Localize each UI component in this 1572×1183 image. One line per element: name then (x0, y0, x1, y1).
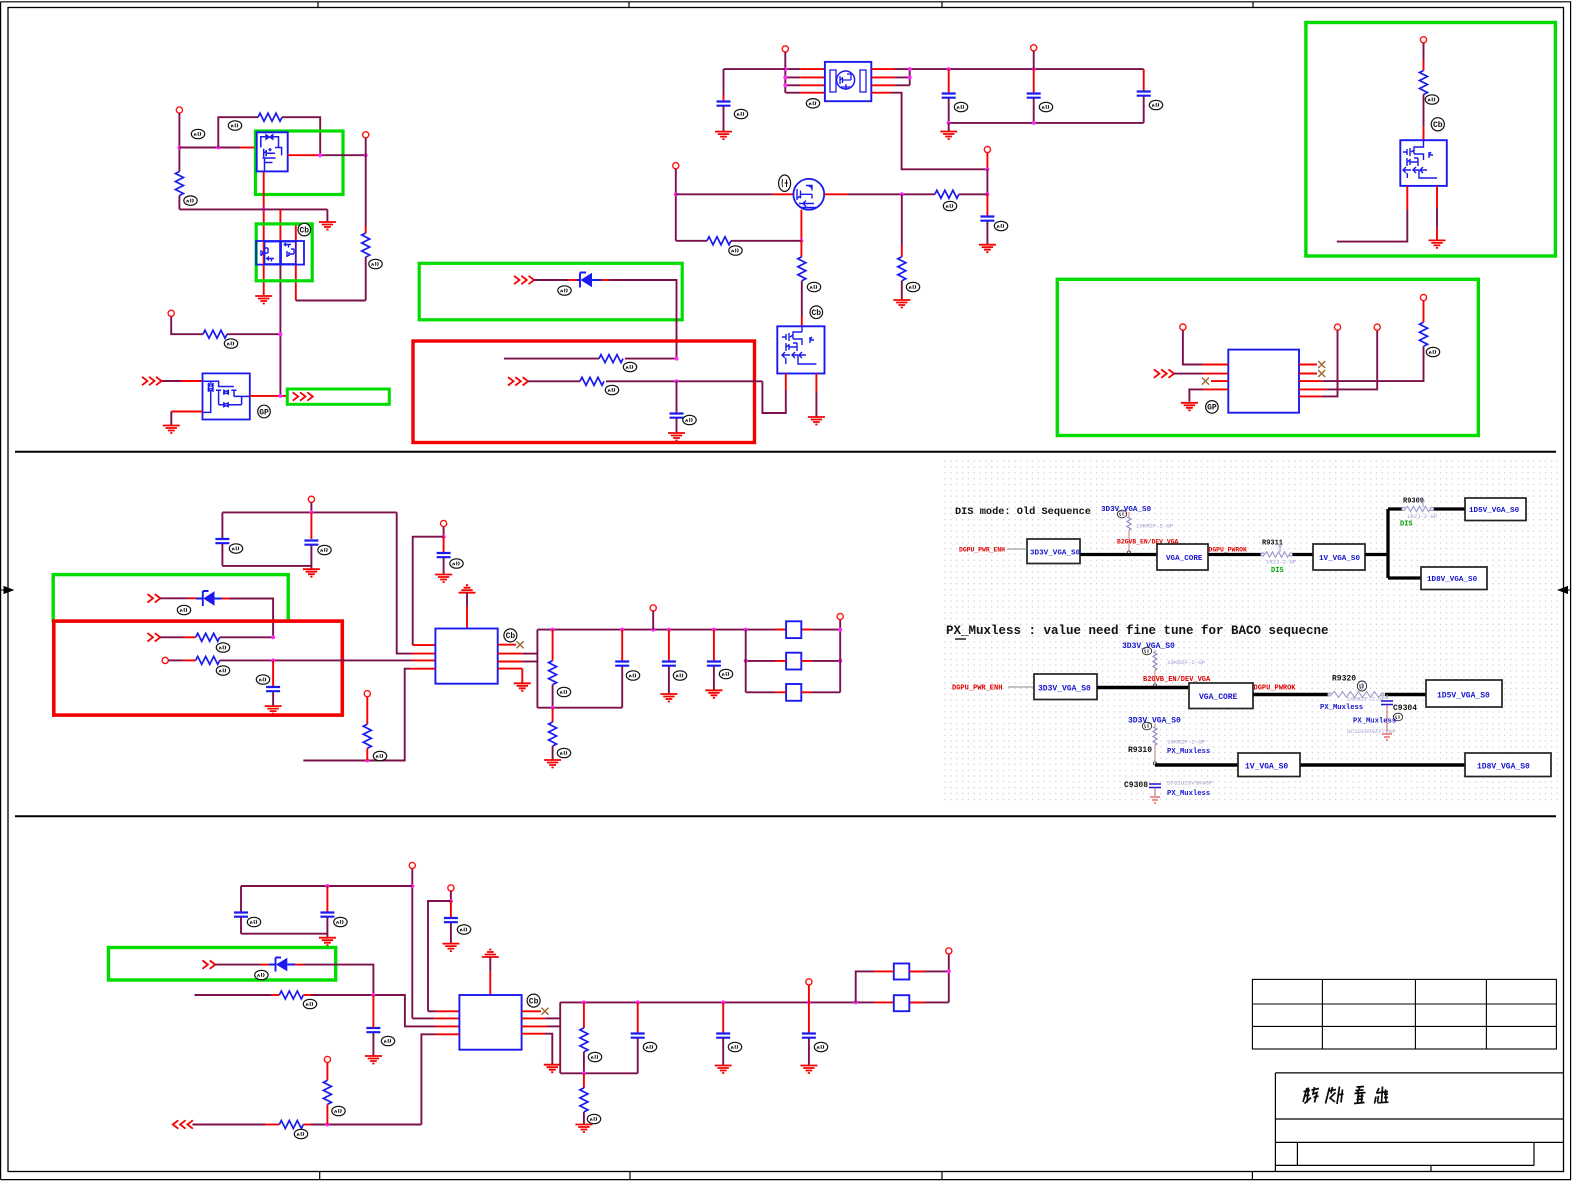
label R11 (1425, 95, 1438, 104)
resistor R4 (203, 330, 227, 338)
svg-text:Cb: Cb (1433, 121, 1443, 130)
resistor R20 (326, 1063, 328, 1081)
wire rail y209 (179, 208, 327, 210)
node bus c4 (1032, 67, 1036, 71)
port chevrons U2 (1154, 369, 1160, 377)
wire RB1 row2 (528, 380, 762, 382)
capacitor C14 (240, 886, 242, 912)
node box 3D3V_VGA_S0 (1027, 539, 1080, 564)
ground GND24 (715, 1066, 732, 1074)
label D3 (255, 970, 268, 979)
ferrite FB1 (786, 621, 801, 638)
section separator 2 (15, 815, 1556, 817)
node fb2 l (744, 659, 748, 663)
label D2 (177, 605, 190, 614)
svg-text:R9310: R9310 (1128, 746, 1152, 755)
label C14 (247, 917, 260, 926)
node b2 c2 (667, 628, 671, 632)
label R12 (1426, 347, 1439, 356)
connector J15 (162, 657, 168, 663)
svg-text:R9320: R9320 (1332, 675, 1356, 684)
resistor R pullup1 (1127, 512, 1131, 554)
label C15 (334, 917, 347, 926)
svg-text:PX_Muxless: PX_Muxless (1167, 748, 1210, 756)
wire u2 pin1R nc (1299, 364, 1317, 366)
node box VGA_CORE 2 (1189, 683, 1253, 709)
dot grid background (944, 457, 1561, 801)
node source q4 (799, 239, 803, 243)
capacitor C9304 (1386, 695, 1388, 700)
node c2 r (582, 1000, 586, 1004)
svg-text:1D5V_VGA_S0: 1D5V_VGA_S0 (1469, 507, 1520, 515)
label R21 (588, 1052, 601, 1061)
ground GND1 (255, 296, 272, 304)
wire R4 to node (227, 333, 280, 335)
svg-text:1D8V_VGA_S0: 1D8V_VGA_S0 (1427, 576, 1478, 584)
transistor Q1 (257, 132, 288, 171)
wire RB2 row1 (160, 636, 183, 638)
capacitor C1 (670, 414, 684, 418)
wire gate (179, 147, 240, 149)
node bus C (410, 884, 414, 888)
wire feedback loop (218, 117, 320, 155)
wire source red (263, 172, 265, 296)
ferrite FB5 (894, 995, 910, 1011)
svg-text:DIS: DIS (1400, 521, 1413, 529)
wire bottom bus B2 (537, 707, 622, 709)
wire u2 pin2R nc (1299, 373, 1317, 375)
wire RB1 row1 (504, 358, 677, 360)
connector J21 (324, 1056, 330, 1062)
svg-text:3D3V_VGA_S0: 3D3V_VGA_S0 (1030, 550, 1081, 558)
wire thick 1 (1080, 553, 1157, 556)
wire diode B out (222, 598, 230, 600)
ground GND25 (800, 1066, 817, 1074)
node box 3D3V 2 (1034, 674, 1097, 700)
connector J6 (984, 147, 990, 153)
label C20 (814, 1042, 827, 1051)
wire thick px2 (1253, 693, 1426, 697)
svg-text:Cb: Cb (811, 309, 821, 318)
wire Q3 gnd (171, 411, 202, 413)
wire diode C out (295, 964, 303, 966)
wire top bus B2 (537, 629, 840, 631)
svg-text:10KR2F-2-GP: 10KR2F-2-GP (1167, 659, 1206, 666)
wire U1 pin4 (871, 92, 891, 94)
label Q4 (779, 175, 791, 191)
node diode C (371, 993, 375, 997)
label R18 (303, 999, 316, 1008)
wire u4 pin1R nc (522, 1010, 541, 1012)
highlight green box G3 (256, 224, 312, 281)
ground GND8 (893, 300, 910, 308)
svg-text:10KR2F-2-GP: 10KR2F-2-GP (1136, 523, 1174, 530)
label C9 (450, 559, 463, 568)
ferrite FB4 (894, 964, 910, 980)
border zone ticks bottom (320, 1172, 1253, 1180)
wire fb right rail (839, 620, 841, 693)
svg-text:1R2J-2-GP: 1R2J-2-GP (1266, 559, 1297, 566)
capacitor C9 (443, 537, 445, 552)
ferrite FB3 (786, 684, 801, 701)
connector J4 (782, 46, 788, 52)
connector J19 (409, 862, 415, 868)
svg-text:Cb: Cb (506, 632, 516, 641)
label C7 (229, 544, 242, 553)
resistor R9310 (1153, 724, 1157, 765)
connector J3 (168, 310, 174, 316)
label R22 (587, 1114, 600, 1123)
node bb c2 (582, 1071, 586, 1075)
label Q1 (191, 129, 204, 138)
label Cb2 (810, 306, 823, 319)
wire J14 branch (413, 537, 444, 645)
transistor Q2 dual fet (256, 241, 304, 265)
connector J11 (1374, 324, 1380, 330)
label R14 (216, 666, 229, 675)
label R6 (605, 385, 618, 394)
label Cb1 (298, 223, 311, 236)
regulator U4 (459, 995, 521, 1050)
revision table (1252, 979, 1556, 1049)
node u1 jog1 (908, 67, 912, 71)
svg-text:VGA_CORE: VGA_CORE (1166, 555, 1203, 563)
resistor R9 (707, 237, 731, 245)
node b2 rail (744, 628, 748, 632)
capacitor C20 (808, 1002, 810, 1032)
ground GND15 (514, 683, 531, 691)
ground GND22 (544, 1065, 561, 1073)
wire thick px1 (1097, 686, 1189, 690)
wire fb left rail (745, 630, 747, 693)
label R16 (557, 687, 570, 696)
label C18 (643, 1042, 656, 1051)
label C5 (1149, 100, 1162, 109)
resistor R22 (583, 1073, 585, 1088)
label R17 (557, 748, 570, 757)
ground gnd c9304 (1382, 734, 1392, 740)
label GP2 (1206, 401, 1219, 414)
label R4 (224, 339, 237, 348)
wire q6 right leg (1436, 186, 1438, 208)
node b2 c3 (712, 628, 716, 632)
capacitor C16 (450, 901, 452, 917)
regulator U2 (1228, 350, 1299, 413)
resistor R5 (599, 355, 623, 363)
wire bus to pin2L C (412, 1017, 434, 1019)
power bar P2 (482, 950, 499, 958)
wire U1 left pins (724, 68, 786, 70)
connector J16 (364, 691, 370, 697)
wire j9 pin1 (1183, 330, 1203, 364)
ground GND12 (303, 569, 320, 577)
svg-text:R9309: R9309 (1403, 498, 1424, 506)
wire q6 left leg (1406, 186, 1408, 210)
node bb2 (551, 706, 555, 710)
wire U1 pin2-3 jog (871, 77, 894, 85)
wire J20 branch (428, 901, 451, 1011)
section separator 1 (15, 451, 1556, 453)
highlight red box RB2 (54, 621, 343, 715)
connector J18 (837, 613, 843, 619)
capacitor C2 (723, 69, 725, 95)
resistor pullup2 (1153, 650, 1157, 687)
connector J13 (308, 496, 314, 502)
transistor Q4 (793, 179, 824, 210)
node c2 c1 (636, 1000, 640, 1004)
wire u4 pin4R gnd (522, 1033, 545, 1035)
wire diode out (601, 279, 609, 281)
ground GND20 (442, 944, 459, 952)
wire J3 to R4 (171, 317, 203, 335)
svg-text:1R2J-2-GP: 1R2J-2-GP (1407, 513, 1438, 520)
node fb right top (838, 628, 842, 632)
diode D3 (269, 958, 295, 972)
ground GND2 (326, 209, 328, 222)
power bar P1 (459, 585, 476, 593)
node drain-conn (364, 153, 368, 157)
svg-text:Cb: Cb (299, 226, 309, 235)
node b2 c1 (620, 628, 624, 632)
node bus c3 (947, 67, 951, 71)
wire top bus C2 (560, 1001, 949, 1003)
wire source rail (676, 240, 707, 242)
node c2 c2 (721, 1000, 725, 1004)
node bus C c2 (325, 884, 329, 888)
node c2 sq (854, 1000, 858, 1004)
label Cb5 (527, 994, 540, 1007)
svg-text:3D3V_VGA_S0: 3D3V_VGA_S0 (1038, 685, 1091, 694)
wire q5 right leg (815, 374, 817, 393)
tiny ref oval r1 (1117, 510, 1126, 518)
resistor R3 (362, 233, 370, 257)
resistor R6 (580, 377, 604, 385)
node box 1D8V 2 (1465, 753, 1551, 777)
wire bottom row C (192, 1124, 265, 1126)
node box 1D8V_VGA_S0 (1421, 567, 1487, 590)
capacitor C4 (1033, 69, 1035, 93)
nc pin3 (1202, 378, 1209, 385)
label C19 (728, 1042, 741, 1051)
ground GND18 (705, 690, 722, 698)
capacitor C19 (722, 1002, 724, 1032)
label R5 (623, 362, 636, 371)
capacitor C7 (221, 512, 223, 538)
node bottom row (325, 1123, 329, 1127)
label C17 (381, 1036, 394, 1045)
node c2 c3 (807, 1000, 811, 1004)
svg-text:GP: GP (259, 408, 269, 417)
wire bottom bus B (222, 565, 311, 567)
wire rail drop x295 (295, 224, 297, 301)
capacitor C18 (637, 1002, 639, 1032)
highlight green box G6 (53, 575, 288, 622)
company logo text (1303, 1087, 1389, 1105)
capacitor C10 (272, 660, 274, 686)
wire fb2 row (746, 660, 841, 662)
wire u4 pin3R (522, 1025, 547, 1027)
resistor R10 (800, 241, 802, 257)
label C2 (734, 109, 747, 118)
ground GND6 (948, 123, 950, 132)
wire source q4 (800, 210, 802, 241)
svg-text:1V_VGA_S0: 1V_VGA_S0 (1245, 763, 1288, 772)
wire u4 pin2R (522, 1017, 546, 1019)
node drain-fb (318, 153, 322, 157)
wire rail to cap C1 (676, 381, 678, 412)
label R3 (369, 259, 382, 268)
wire rail drop x280 (279, 209, 281, 265)
SECTION-C (109, 862, 952, 1138)
ground GND16 (544, 760, 561, 768)
highlight red box RB1 (413, 341, 755, 443)
label Cb4 (504, 629, 517, 642)
transistor Q3 pack (203, 373, 250, 419)
wire bottom bus C2 (560, 1072, 638, 1074)
ground GND11 (1181, 403, 1198, 411)
wire bottom bus C (241, 933, 327, 935)
label C1 (683, 415, 696, 424)
wire jog y300 (296, 300, 366, 302)
port input chevrons (142, 377, 148, 385)
capacitor C15 (326, 886, 328, 912)
border mid arrow left (1, 587, 13, 594)
capacitor C11 (621, 630, 623, 661)
ground gnd c9308 (1150, 797, 1160, 803)
wire thick 3 (1293, 553, 1314, 556)
transistor Q6 (1400, 140, 1447, 186)
svg-text:PX_Muxless: PX_Muxless (1353, 718, 1396, 726)
resistor R19 (279, 1121, 303, 1129)
wire top bus B (222, 511, 396, 513)
wire U1 right bus (871, 68, 894, 70)
wire fb right rail C (948, 954, 950, 1002)
ground GND13 (435, 575, 452, 583)
capacitor C6 (986, 194, 988, 215)
wire to diode D2 (160, 597, 188, 599)
label R20 (332, 1106, 345, 1115)
wire q5 left leg (785, 374, 787, 391)
svg-text:C9308: C9308 (1124, 781, 1148, 790)
connector J14 (441, 520, 447, 526)
wire top bus C (241, 885, 412, 887)
capacitor C3 (948, 69, 950, 93)
port output chevrons (293, 392, 299, 400)
connector J12 (1334, 324, 1340, 330)
node bbus (1032, 121, 1036, 125)
highlight green box G1 diode row (419, 263, 682, 320)
vertical net B right (536, 630, 538, 708)
node pin3 (783, 83, 787, 87)
wire Q3 out (250, 395, 287, 397)
border mid arrow right (1559, 587, 1572, 594)
connector J17 (650, 605, 656, 611)
svg-text:DGPU_PWROK: DGPU_PWROK (1209, 547, 1248, 554)
resistor R17 (552, 708, 554, 722)
node gate q4 (674, 192, 678, 196)
connector J5 (1031, 45, 1037, 51)
port output green box (287, 389, 389, 404)
svg-text:PX_Muxless: PX_Muxless (1320, 704, 1363, 712)
node box 1D5V_VGA_S0 (1465, 498, 1526, 521)
wire drain (288, 154, 319, 156)
svg-text:GP: GP (1207, 404, 1217, 413)
svg-text:VGA_CORE: VGA_CORE (1199, 693, 1238, 702)
port chevrons out C (173, 1120, 179, 1128)
wire thick px3 (1155, 763, 1465, 767)
connector J2 (363, 132, 369, 138)
resistor R16 (552, 630, 554, 661)
capacitor C8 (310, 512, 312, 539)
connector J10 (1420, 295, 1426, 301)
ground GND3 (163, 426, 180, 434)
diode D1 (577, 273, 601, 288)
svg-text:PX_Muxless: PX_Muxless (1167, 790, 1210, 798)
wire to diode D3 (215, 964, 261, 966)
node r15 (365, 759, 369, 763)
resistor R2 (258, 113, 282, 121)
wire bus B to pin2 (397, 512, 412, 653)
wire conn2 vertical (365, 138, 367, 226)
svg-text:1D5V_VGA_S0: 1D5V_VGA_S0 (1437, 692, 1490, 701)
ground GND5 (715, 132, 732, 140)
wire thick branch (1365, 509, 1465, 578)
resistor R12 (1420, 322, 1428, 346)
node box VGA_CORE (1157, 544, 1208, 570)
connector J7 (673, 163, 679, 169)
node cap6 (985, 192, 989, 196)
node box 1V 2 (1238, 753, 1300, 777)
ground GND21 (365, 1056, 382, 1064)
label D1 (558, 286, 571, 295)
connector J22 (806, 979, 812, 985)
port chevrons diode C (202, 960, 208, 968)
label R10 (807, 282, 820, 291)
label C12 (673, 671, 686, 680)
wire u2 pin3R (1299, 380, 1322, 382)
port chevrons RB1 (508, 377, 514, 385)
resistor R15 (366, 697, 368, 724)
node feedback junction (216, 146, 220, 150)
svg-text:1D8V_VGA_S0: 1D8V_VGA_S0 (1477, 763, 1530, 772)
label C8 (318, 545, 331, 554)
wire u4 pin4L (436, 1033, 460, 1035)
node RB2 r2 (271, 658, 275, 662)
svg-text:Cb: Cb (529, 997, 539, 1006)
svg-text:10KR2F-2-GP: 10KR2F-2-GP (1167, 739, 1206, 746)
label C10 (256, 675, 269, 684)
resistor R14 (196, 656, 220, 664)
svg-text:SC01U25V3K4GP: SC01U25V3K4GP (1167, 780, 1213, 787)
wire u3 pin2R (498, 653, 523, 655)
node source-gnd rail (262, 207, 266, 211)
wire drain q4 (824, 193, 847, 195)
wire J4 feed (785, 52, 800, 93)
vertical left C2 (559, 1002, 561, 1073)
ground GND23 (575, 1125, 592, 1133)
label R9 (729, 246, 742, 255)
resistor R11 (1420, 71, 1428, 95)
node J14 (442, 535, 446, 539)
highlight green box G4 (1306, 23, 1556, 257)
node fb C (947, 969, 951, 973)
node bbus2 (947, 121, 951, 125)
node u1 jog2 (908, 75, 912, 79)
ground GND14 (265, 706, 282, 714)
capacitor C5 (1143, 69, 1145, 91)
wire gate q4 (676, 193, 774, 195)
label C3 (954, 102, 967, 111)
